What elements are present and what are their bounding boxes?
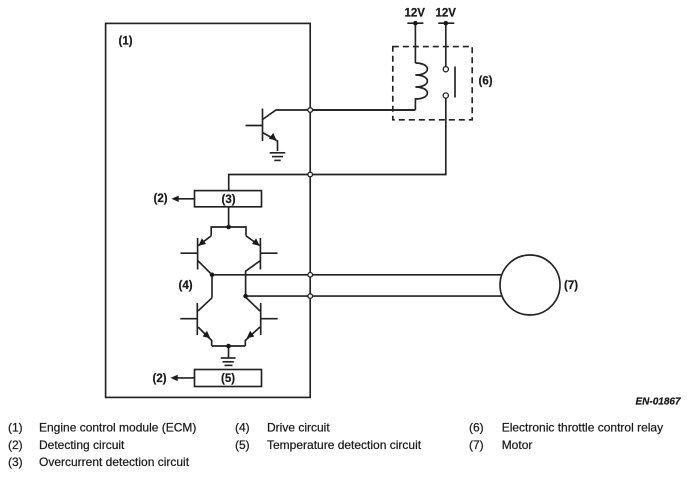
svg-text:(1): (1) bbox=[119, 35, 133, 47]
svg-text:Overcurrent detection circuit: Overcurrent detection circuit bbox=[39, 455, 190, 469]
svg-text:(3): (3) bbox=[222, 194, 236, 206]
svg-text:(1): (1) bbox=[8, 421, 23, 435]
svg-text:(2): (2) bbox=[8, 438, 23, 452]
svg-text:(6): (6) bbox=[479, 75, 493, 87]
svg-text:(2): (2) bbox=[153, 373, 167, 385]
svg-text:EN-01867: EN-01867 bbox=[635, 397, 680, 408]
svg-text:(5): (5) bbox=[235, 438, 250, 452]
svg-text:Motor: Motor bbox=[502, 438, 533, 452]
svg-text:Electronic throttle control re: Electronic throttle control relay bbox=[502, 421, 663, 435]
svg-text:(4): (4) bbox=[235, 421, 250, 435]
svg-text:Drive circuit: Drive circuit bbox=[267, 421, 330, 435]
svg-text:(6): (6) bbox=[469, 421, 484, 435]
svg-text:(7): (7) bbox=[469, 438, 484, 452]
svg-text:12V: 12V bbox=[405, 8, 426, 20]
svg-text:(3): (3) bbox=[8, 455, 23, 469]
svg-text:Engine control module (ECM): Engine control module (ECM) bbox=[39, 421, 196, 435]
svg-text:12V: 12V bbox=[436, 8, 457, 20]
svg-text:Temperature detection circuit: Temperature detection circuit bbox=[267, 438, 422, 452]
svg-text:(5): (5) bbox=[221, 373, 235, 385]
svg-text:(4): (4) bbox=[179, 280, 193, 292]
svg-text:(7): (7) bbox=[564, 280, 578, 292]
svg-text:(2): (2) bbox=[154, 193, 168, 205]
svg-text:Detecting circuit: Detecting circuit bbox=[39, 438, 125, 452]
